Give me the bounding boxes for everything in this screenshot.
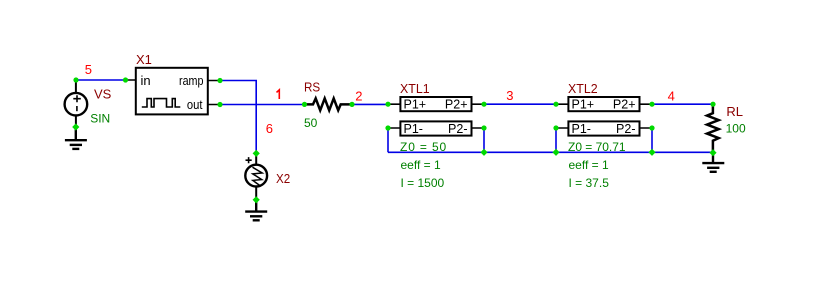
svg-text:X2: X2	[276, 171, 290, 186]
node dot XTL2.P1+	[553, 102, 558, 107]
node dot XTL1.P2-	[481, 125, 486, 130]
transmission line XTL1	[388, 97, 484, 136]
svg-text:100: 100	[726, 122, 746, 136]
svg-text:P1+: P1+	[404, 98, 427, 112]
svg-text:RL: RL	[726, 104, 743, 119]
svg-text:ramp: ramp	[179, 73, 204, 88]
svg-text:XTL2: XTL2	[568, 81, 598, 96]
svg-text:XTL1: XTL1	[400, 81, 430, 96]
svg-text:4: 4	[668, 88, 675, 103]
node dot RL top	[710, 102, 715, 107]
svg-text:Z0 = 70.71: Z0 = 70.71	[568, 140, 626, 154]
wire net3 XTL1.P2+ to XTL2.P1+	[484, 103, 556, 105]
node dot X1.ramp	[217, 78, 222, 83]
voltage source VS	[65, 80, 88, 127]
node dot X1.in	[123, 77, 128, 82]
svg-text:P2-: P2-	[448, 122, 467, 136]
node dot X1.out	[217, 102, 222, 107]
svg-text:P1-: P1-	[572, 122, 591, 136]
svg-text:P2+: P2+	[445, 98, 468, 112]
wire XTL1.P1- down	[387, 128, 389, 152]
node dot VS bottom	[72, 123, 79, 130]
svg-text:I = 37.5: I = 37.5	[569, 176, 610, 190]
wire net5 VS to X1.in	[76, 79, 125, 81]
svg-text:I = 1500: I = 1500	[401, 176, 445, 190]
node dot XTL2.P2+	[649, 102, 654, 107]
svg-text:50: 50	[304, 116, 318, 130]
svg-text:5: 5	[85, 62, 92, 77]
wire XTL2.P2- down	[651, 128, 653, 152]
wire X1.out net1 to RS	[220, 104, 305, 106]
svg-text:2: 2	[355, 89, 362, 104]
node dot RS right	[349, 102, 354, 107]
junction dot bus XTL2.P2-	[648, 149, 655, 156]
node dot XTL1.P2+	[481, 102, 486, 107]
node dot X2 bottom	[253, 196, 260, 203]
ground under RL	[702, 153, 724, 172]
ground under VS	[65, 127, 87, 149]
svg-text:in: in	[141, 73, 151, 88]
node dot XTL1.P1-	[385, 125, 390, 130]
svg-text:VS: VS	[94, 87, 112, 102]
svg-text:P1+: P1+	[572, 98, 595, 112]
node number 1	[277, 90, 280, 99]
svg-text:out: out	[187, 97, 203, 112]
node dot XTL2.P1-	[553, 125, 558, 130]
resistor RL	[707, 104, 719, 153]
svg-text:eeff = 1: eeff = 1	[401, 158, 441, 172]
macro block X1	[125, 68, 220, 115]
wire XTL2.P1- down	[555, 128, 557, 152]
junction dot bus XTL1.P2-	[480, 149, 487, 156]
node dot RL bottom	[709, 149, 716, 156]
svg-text:P1-: P1-	[404, 122, 423, 136]
svg-text:eeff = 1: eeff = 1	[569, 158, 609, 172]
node dot X2 top	[253, 150, 260, 157]
node dot net5 at VS top	[73, 77, 78, 82]
svg-text:Z0 = 50: Z0 = 50	[400, 140, 447, 154]
svg-text:P2-: P2-	[616, 122, 635, 136]
resistor RS	[307, 98, 353, 110]
node dot RS left	[302, 102, 307, 107]
wire X1.ramp to node6 vertical	[220, 81, 256, 154]
ground under X2	[245, 200, 267, 220]
svg-text:SIN: SIN	[90, 112, 110, 126]
svg-text:6: 6	[266, 121, 273, 136]
svg-text:RS: RS	[304, 80, 320, 95]
wire net2 RS to XTL1.P1+	[352, 103, 388, 105]
junction dot bus XTL2.P1-	[552, 149, 559, 156]
wire bottom bus	[388, 151, 713, 153]
transmission line XTL2	[556, 97, 652, 136]
wire XTL1.P2- down	[483, 128, 485, 152]
source X2	[245, 153, 267, 199]
node dot XTL2.P2-	[649, 125, 654, 130]
node dot XTL1.P1+	[385, 102, 390, 107]
svg-text:3: 3	[506, 88, 513, 103]
wire net4 XTL2.P2+ to RL	[652, 103, 713, 105]
svg-text:X1: X1	[136, 52, 152, 67]
svg-text:P2+: P2+	[613, 98, 636, 112]
